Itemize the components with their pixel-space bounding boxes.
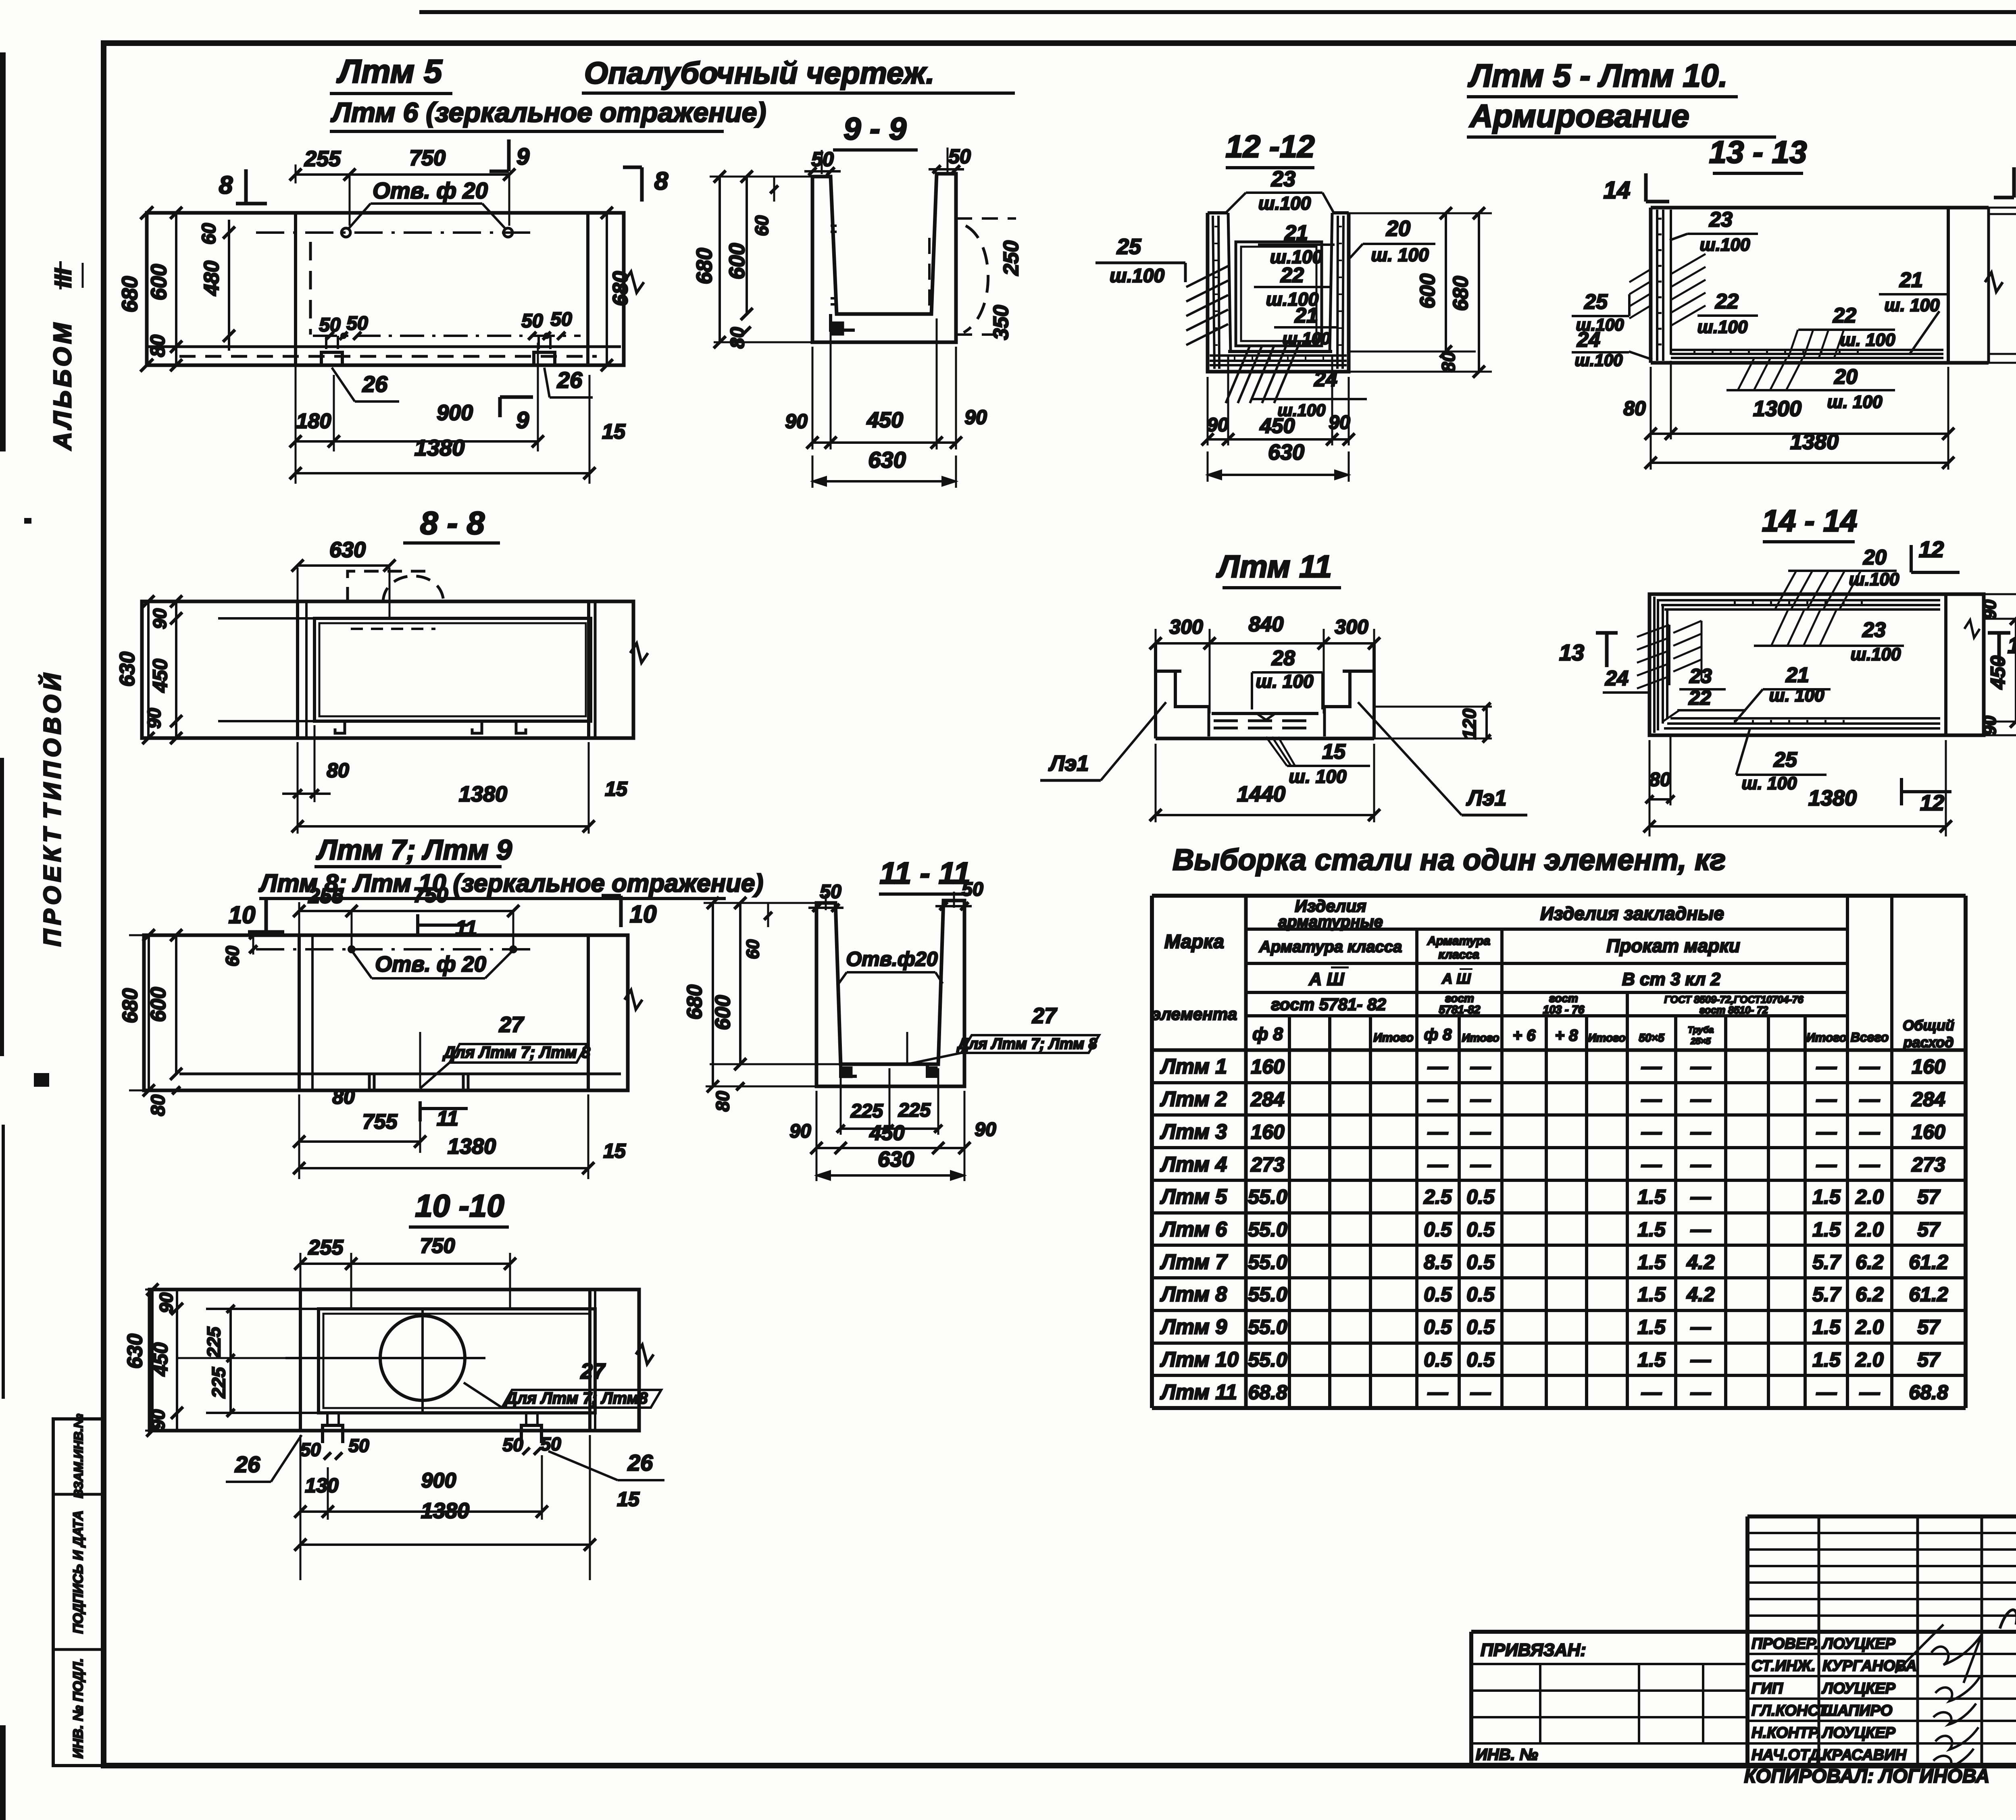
svg-text:8: 8 xyxy=(219,171,233,199)
svg-text:—: — xyxy=(1816,1121,1837,1143)
svg-text:61.2: 61.2 xyxy=(1909,1283,1948,1306)
svg-text:27: 27 xyxy=(580,1359,606,1383)
svg-text:225: 225 xyxy=(850,1100,883,1122)
svg-text:Для Лтм 7; Лтм 8: Для Лтм 7; Лтм 8 xyxy=(956,1036,1097,1052)
view 11-11 header xyxy=(879,856,971,894)
svg-text:Итого: Итого xyxy=(1373,1031,1414,1044)
view 8-8 inner trough xyxy=(218,618,591,721)
svg-text:55.0: 55.0 xyxy=(1248,1186,1287,1208)
heading Ltm7 Ltm9 xyxy=(314,834,512,867)
svg-text:ш.100: ш.100 xyxy=(1574,351,1622,370)
svg-text:80: 80 xyxy=(712,1091,733,1112)
svg-text:750: 750 xyxy=(413,884,448,907)
svg-text:90: 90 xyxy=(785,410,808,433)
view 13-13 hatch left outside xyxy=(1629,269,1651,318)
svg-text:26: 26 xyxy=(235,1452,260,1477)
svg-text:2.0: 2.0 xyxy=(1855,1218,1884,1241)
view 10-10 callout 27 flag xyxy=(464,1359,661,1408)
svg-text:25: 25 xyxy=(1584,290,1608,314)
svg-text:273: 273 xyxy=(1250,1153,1285,1176)
view 14-14 callout 21 xyxy=(1735,664,1831,722)
svg-text:15: 15 xyxy=(617,1488,640,1510)
view 11-11 top dims 50 50 xyxy=(808,879,983,912)
svg-text:9: 9 xyxy=(516,144,529,170)
svg-text:50: 50 xyxy=(820,881,841,903)
view Ltm7 left dims 680 600 80 xyxy=(119,929,182,1116)
svg-text:ш. 100: ш. 100 xyxy=(1371,244,1429,265)
view Ltm7 callout 27 flag xyxy=(420,1013,591,1088)
svg-text:0.5: 0.5 xyxy=(1466,1283,1495,1306)
svg-text:160: 160 xyxy=(1251,1055,1285,1078)
view Ltm7 section mark 10 right xyxy=(602,896,656,928)
svg-text:250: 250 xyxy=(1000,241,1023,276)
svg-text:50: 50 xyxy=(550,309,572,330)
view Ltm5 left dim chain 680 600 480 60 80 xyxy=(118,206,235,372)
svg-text:80: 80 xyxy=(1623,397,1646,420)
svg-text:80: 80 xyxy=(332,1086,355,1108)
svg-text:1.5: 1.5 xyxy=(1637,1186,1666,1208)
svg-text:160: 160 xyxy=(1912,1121,1945,1143)
svg-text:—: — xyxy=(1470,1088,1491,1111)
svg-text:22: 22 xyxy=(1715,290,1739,313)
svg-text:80: 80 xyxy=(148,1094,169,1116)
svg-text:13 - 13: 13 - 13 xyxy=(1709,134,1807,170)
svg-text:4.2: 4.2 xyxy=(1686,1283,1715,1306)
svg-text:60: 60 xyxy=(751,215,772,236)
svg-text:+ 8: + 8 xyxy=(1555,1027,1578,1044)
svg-text:Выборка стали на один элемент,: Выборка стали на один элемент, кг xyxy=(1173,843,1726,876)
svg-text:—: — xyxy=(1816,1055,1837,1078)
svg-text:680: 680 xyxy=(118,276,142,312)
svg-text:25: 25 xyxy=(1116,235,1141,259)
view 13-13 callout 23 xyxy=(1670,208,1758,255)
svg-text:Отв.ф20: Отв.ф20 xyxy=(846,948,937,970)
svg-text:+ 6: + 6 xyxy=(1513,1027,1536,1044)
svg-text:ЛОУЦКЕР: ЛОУЦКЕР xyxy=(1821,1724,1895,1741)
svg-text:Лтм 5: Лтм 5 xyxy=(336,53,443,90)
svg-text:284: 284 xyxy=(1911,1088,1945,1111)
svg-text:50: 50 xyxy=(962,879,983,900)
stamp strip label vzam inv xyxy=(71,1414,85,1498)
svg-text:300: 300 xyxy=(1335,616,1368,638)
svg-text:ш. 100: ш. 100 xyxy=(1885,295,1940,315)
svg-text:680: 680 xyxy=(1449,276,1472,311)
svg-text:630: 630 xyxy=(329,538,366,562)
view 12-12 bottom dim 630 xyxy=(1208,440,1349,482)
view 8-8 outline xyxy=(142,601,633,738)
view 14-14 right dims 90 450 630 90 xyxy=(1980,588,2016,741)
svg-text:Опалубочный чертеж.: Опалубочный чертеж. xyxy=(584,56,934,90)
svg-text:10 -10: 10 -10 xyxy=(415,1188,504,1223)
svg-text:68.8: 68.8 xyxy=(1248,1381,1287,1404)
svg-text:25×5: 25×5 xyxy=(1690,1036,1711,1046)
svg-text:26: 26 xyxy=(362,371,388,397)
svg-text:А Ш: А Ш xyxy=(1441,970,1471,987)
svg-text:Отв. ф 20: Отв. ф 20 xyxy=(373,178,488,203)
svg-text:5.7: 5.7 xyxy=(1812,1283,1841,1306)
scan paper top edge xyxy=(419,10,2016,14)
view 8-8 break mark right xyxy=(630,643,648,663)
svg-text:гост: гост xyxy=(1445,992,1474,1005)
svg-text:Для Лтм 7; Лтм 8: Для Лтм 7; Лтм 8 xyxy=(442,1044,591,1061)
svg-text:630: 630 xyxy=(1268,440,1304,464)
view 10-10 inner trough xyxy=(206,1309,595,1413)
view Ltm7 top dims 255 750 xyxy=(293,884,519,949)
svg-text:55.0: 55.0 xyxy=(1248,1316,1287,1338)
svg-text:180: 180 xyxy=(296,410,331,433)
svg-text:160: 160 xyxy=(1251,1121,1285,1143)
svg-text:Лтм 2: Лтм 2 xyxy=(1160,1088,1227,1111)
view Ltm7 dim 60 xyxy=(222,931,257,967)
svg-text:—: — xyxy=(1690,1316,1711,1338)
svg-text:1380: 1380 xyxy=(1808,786,1857,810)
view 9-9 wall ties xyxy=(831,226,837,304)
svg-text:—: — xyxy=(1641,1088,1662,1111)
svg-text:273: 273 xyxy=(1911,1153,1945,1176)
svg-text:20: 20 xyxy=(1863,546,1887,569)
svg-text:24: 24 xyxy=(1577,328,1600,352)
view Ltm5 label Otv f20 xyxy=(348,178,506,230)
view 12-12 callout 22 xyxy=(1254,264,1331,310)
svg-text:680: 680 xyxy=(119,988,142,1023)
svg-text:24: 24 xyxy=(1605,667,1629,690)
svg-text:Итого: Итого xyxy=(1462,1032,1499,1044)
svg-text:50: 50 xyxy=(348,1435,369,1456)
view 13-13 bottom dims 80 1300 xyxy=(1623,361,1954,470)
view 13-13 right dims 600 680 80 xyxy=(1948,202,2016,369)
svg-text:55.0: 55.0 xyxy=(1248,1218,1287,1241)
svg-text:1.5: 1.5 xyxy=(1812,1348,1841,1371)
svg-text:50: 50 xyxy=(319,314,341,336)
svg-text:—: — xyxy=(1859,1088,1880,1111)
svg-text:80: 80 xyxy=(146,335,169,357)
svg-text:24: 24 xyxy=(1314,368,1337,391)
svg-text:—: — xyxy=(1816,1381,1837,1404)
svg-text:Итого: Итого xyxy=(1588,1032,1625,1044)
svg-text:ш. 100: ш. 100 xyxy=(1742,774,1797,793)
svg-text:255: 255 xyxy=(308,1236,344,1259)
svg-text:450: 450 xyxy=(149,659,171,693)
svg-text:ИНВ. № ПОДЛ.: ИНВ. № ПОДЛ. xyxy=(71,1658,86,1759)
view Ltm11 top dims 300 840 300 xyxy=(1150,613,1380,713)
svg-text:НАЧ.ОТД.: НАЧ.ОТД. xyxy=(1752,1747,1824,1764)
view Ltm5 callout 26 left xyxy=(332,368,399,401)
svg-text:—: — xyxy=(1816,1088,1837,1111)
svg-text:В ст 3 кл 2: В ст 3 кл 2 xyxy=(1622,969,1721,989)
view Ltm5 anchor marks 26 left xyxy=(321,336,342,365)
view 14-14 left hatch xyxy=(1637,625,1669,688)
svg-text:—: — xyxy=(1690,1381,1711,1404)
svg-text:680: 680 xyxy=(683,985,706,1020)
view Ltm5 section mark 9 bottom xyxy=(500,397,533,433)
svg-text:755: 755 xyxy=(362,1110,398,1134)
svg-text:гост 8510- 72: гост 8510- 72 xyxy=(1699,1005,1768,1016)
svg-text:50: 50 xyxy=(521,310,543,332)
svg-text:1.5: 1.5 xyxy=(1637,1251,1666,1273)
svg-text:—: — xyxy=(1859,1055,1880,1078)
svg-text:ТИПОВОЙ: ТИПОВОЙ xyxy=(38,669,66,819)
svg-text:12: 12 xyxy=(1919,537,1944,562)
view 8-8 bottom dims 80 1380 15 xyxy=(282,725,628,834)
svg-text:10: 10 xyxy=(229,901,256,928)
view Ltm7 label Otv f20 xyxy=(353,952,511,978)
svg-text:ВЗАМ.ИНВ.№: ВЗАМ.ИНВ.№ xyxy=(71,1414,85,1498)
svg-text:1380: 1380 xyxy=(1790,430,1839,454)
svg-text:0.5: 0.5 xyxy=(1466,1218,1495,1241)
svg-text:120: 120 xyxy=(1459,708,1480,739)
svg-text:ш. 100: ш. 100 xyxy=(1827,392,1883,412)
view 10-10 top dims 255 750 xyxy=(294,1234,516,1310)
view Ltm11 dim 1440 xyxy=(1150,744,1380,822)
view Ltm5 right dim 680 xyxy=(601,207,632,371)
svg-text:—: — xyxy=(1859,1153,1880,1176)
view 10-10 callout 26 left xyxy=(226,1435,302,1482)
svg-text:0.5: 0.5 xyxy=(1466,1348,1495,1371)
svg-text:14: 14 xyxy=(1604,177,1631,204)
svg-text:А Ш: А Ш xyxy=(1308,969,1344,989)
svg-text:ПОДПИСЬ И ДАТА: ПОДПИСЬ И ДАТА xyxy=(71,1510,86,1634)
svg-text:Армирование: Армирование xyxy=(1469,98,1689,134)
svg-text:2.0: 2.0 xyxy=(1855,1348,1884,1371)
svg-text:—: — xyxy=(1427,1381,1448,1404)
svg-text:ПРОВЕР.: ПРОВЕР. xyxy=(1752,1635,1818,1652)
svg-text:450: 450 xyxy=(866,408,903,432)
svg-text:28: 28 xyxy=(1271,647,1295,670)
view 11-11 channel outline xyxy=(816,901,964,1086)
bottom note kopiroval xyxy=(1744,1766,1990,1787)
svg-text:50: 50 xyxy=(948,145,971,168)
view 9-9 rotated dims 250 350 xyxy=(989,241,1023,340)
svg-text:Общий: Общий xyxy=(1903,1017,1954,1034)
view 12-12 header xyxy=(1225,129,1314,168)
view 12-12 wall rebar lines xyxy=(1210,216,1347,369)
svg-text:ИНВ. №: ИНВ. № xyxy=(1476,1746,1538,1764)
view 13-13 callout 22 with hatch xyxy=(1788,304,1895,358)
svg-text:0.5: 0.5 xyxy=(1424,1316,1452,1338)
svg-text:ш.100: ш.100 xyxy=(1700,235,1750,255)
svg-text:1.5: 1.5 xyxy=(1637,1218,1666,1241)
svg-text:130: 130 xyxy=(305,1474,339,1497)
title block inv no xyxy=(1476,1746,1538,1764)
svg-text:90: 90 xyxy=(964,406,987,428)
svg-text:Лтм 1: Лтм 1 xyxy=(1160,1055,1227,1078)
svg-text:255: 255 xyxy=(308,884,344,908)
svg-text:Лтм 4: Лтм 4 xyxy=(1160,1153,1227,1176)
stamp strip label inv podl xyxy=(71,1658,86,1759)
view Ltm5 dims 50 50 left xyxy=(319,313,368,340)
svg-text:284: 284 xyxy=(1250,1088,1284,1111)
svg-text:гост: гост xyxy=(1549,992,1578,1005)
svg-text:Всего: Всего xyxy=(1851,1030,1889,1044)
svg-text:61.2: 61.2 xyxy=(1909,1251,1948,1273)
svg-text:630: 630 xyxy=(878,1147,914,1171)
view Ltm5 callout 26 right xyxy=(544,367,593,397)
view Ltm5 bottom dims 180 900 xyxy=(289,343,544,484)
svg-text:255: 255 xyxy=(304,147,341,171)
view Ltm11 dim 120 xyxy=(1374,703,1492,743)
view 13-13 left wall rebar xyxy=(1657,210,1671,361)
svg-text:ПРОЕКТ: ПРОЕКТ xyxy=(39,824,66,946)
svg-text:60: 60 xyxy=(198,223,220,245)
stamp strip label podpis xyxy=(71,1510,86,1634)
svg-text:1.5: 1.5 xyxy=(1812,1218,1841,1241)
svg-text:1380: 1380 xyxy=(414,435,465,460)
svg-text:15: 15 xyxy=(605,778,628,800)
svg-text:750: 750 xyxy=(409,146,446,170)
view Ltm7 bottom dims 80 755 11 xyxy=(293,1086,468,1179)
svg-text:ш.100: ш.100 xyxy=(1697,317,1748,337)
view 12-12 callout 23 top xyxy=(1226,167,1334,214)
view Ltm11 leader Le1 left xyxy=(1040,702,1166,780)
table title xyxy=(1173,843,1726,876)
left margin album text xyxy=(49,320,77,451)
view Ltm7 section mark 10 left xyxy=(229,897,284,932)
svg-text:1.5: 1.5 xyxy=(1637,1283,1666,1306)
view 13-13 break mark xyxy=(1985,272,2003,292)
svg-text:1440: 1440 xyxy=(1237,782,1285,806)
view 14-14 hatch group 20 top xyxy=(1775,571,1897,609)
svg-text:5781-82: 5781-82 xyxy=(1439,1003,1481,1016)
table grid xyxy=(1152,896,1966,1408)
svg-text:элемента: элемента xyxy=(1152,1005,1237,1023)
svg-text:90: 90 xyxy=(1207,414,1229,436)
svg-text:15: 15 xyxy=(602,420,626,443)
svg-text:21: 21 xyxy=(1785,664,1809,687)
svg-text:90: 90 xyxy=(144,708,165,729)
svg-text:Лтм 6 (зеркальное отражение): Лтм 6 (зеркальное отражение) xyxy=(330,97,766,128)
view 13-13 callout 21 xyxy=(1879,268,1947,355)
view 10-10 outline xyxy=(150,1290,639,1431)
svg-text:—: — xyxy=(1690,1121,1711,1143)
heading reinforcement xyxy=(1467,98,1776,137)
view 13-13 callout 20 with hatch below xyxy=(1727,359,1895,412)
svg-text:68.8: 68.8 xyxy=(1909,1381,1948,1404)
svg-text:ш.100: ш.100 xyxy=(1282,329,1330,348)
view 13-13 hatch left inside xyxy=(1671,254,1706,326)
left margin project text 2 xyxy=(39,824,66,946)
view 14-14 callout 20 12 xyxy=(1849,537,1960,589)
svg-text:Труба: Труба xyxy=(1688,1025,1714,1035)
svg-text:160: 160 xyxy=(1912,1055,1945,1078)
svg-text:Лтм 10: Лтм 10 xyxy=(1160,1348,1239,1371)
svg-text:1.5: 1.5 xyxy=(1812,1316,1841,1338)
svg-text:0.5: 0.5 xyxy=(1466,1186,1495,1208)
svg-text:III: III xyxy=(50,268,76,288)
view 14-14 top band rebar xyxy=(1658,600,1940,609)
svg-text:480: 480 xyxy=(200,261,223,296)
svg-text:ш.100: ш.100 xyxy=(1258,193,1311,214)
svg-text:50: 50 xyxy=(300,1439,321,1460)
table header texts xyxy=(1259,896,1804,1016)
svg-text:Отв. ф 20: Отв. ф 20 xyxy=(375,952,486,976)
svg-text:90: 90 xyxy=(156,1292,177,1313)
view Ltm5 plan break mark right xyxy=(624,213,644,365)
svg-text:9 - 9: 9 - 9 xyxy=(843,111,907,146)
svg-text:1380: 1380 xyxy=(448,1134,496,1159)
svg-text:Изделия: Изделия xyxy=(1295,896,1366,915)
svg-text:—: — xyxy=(1470,1055,1491,1078)
svg-text:0.5: 0.5 xyxy=(1466,1251,1495,1273)
view 13-13 section mark 14 right xyxy=(1994,167,2016,198)
svg-text:2.0: 2.0 xyxy=(1855,1186,1884,1208)
view Ltm7 break mark right xyxy=(625,935,642,1090)
view 14-14 callout 23 xyxy=(1851,618,1901,664)
svg-text:КРАСАВИН: КРАСАВИН xyxy=(1822,1747,1907,1764)
view 11-11 bottom dims 225 225 xyxy=(837,1068,942,1135)
svg-text:22: 22 xyxy=(1833,304,1856,327)
view 14-14 bottom dims 80 1380 xyxy=(1643,734,1952,836)
svg-text:8 - 8: 8 - 8 xyxy=(420,505,485,541)
svg-text:27: 27 xyxy=(499,1013,525,1037)
svg-text:ЛОУЦКЕР: ЛОУЦКЕР xyxy=(1821,1635,1895,1652)
view 8-8 rebar marks bottom xyxy=(335,721,526,733)
svg-text:—: — xyxy=(1470,1121,1491,1143)
view 11-11 left dims 680 600 60 80 xyxy=(683,897,841,1112)
svg-text:90: 90 xyxy=(1980,599,2000,619)
svg-text:60: 60 xyxy=(222,946,243,967)
svg-text:60: 60 xyxy=(743,939,763,959)
svg-text:600: 600 xyxy=(147,987,170,1022)
svg-text:55.0: 55.0 xyxy=(1248,1283,1287,1306)
view Ltm5 section mark 8 right xyxy=(623,167,669,202)
view Ltm5 section mark 9 top xyxy=(489,139,529,171)
svg-text:ш. 100: ш. 100 xyxy=(1256,671,1314,692)
view Ltm11 water hatch band xyxy=(1212,713,1318,728)
svg-text:23: 23 xyxy=(1862,618,1886,642)
heading Ltm8 Ltm10 mirrored xyxy=(258,869,763,899)
svg-text:90: 90 xyxy=(975,1119,996,1140)
svg-text:4.2: 4.2 xyxy=(1686,1251,1715,1273)
svg-text:50: 50 xyxy=(502,1434,523,1455)
svg-text:Лтм 7: Лтм 7 xyxy=(1160,1250,1228,1274)
svg-text:Прокат марки: Прокат марки xyxy=(1606,935,1740,956)
svg-text:—: — xyxy=(1816,1153,1837,1176)
view 10-10 left dims 630 450 225 225 90 90 xyxy=(123,1283,285,1437)
view 14-14 mark 12 bottom xyxy=(1901,778,1951,815)
view Ltm11 tray outline xyxy=(1156,643,1374,738)
heading Ltm6 mirrored xyxy=(330,97,766,131)
svg-text:Изделия закладные: Изделия закладные xyxy=(1540,903,1724,924)
svg-text:АЛЬБОМ: АЛЬБОМ xyxy=(49,320,77,451)
svg-text:8.5: 8.5 xyxy=(1424,1251,1452,1273)
svg-text:Лтм 11: Лтм 11 xyxy=(1216,549,1332,584)
view 9-9 top dims 50 50 xyxy=(804,145,971,175)
svg-text:ф 8: ф 8 xyxy=(1252,1024,1283,1044)
view 11-11 bottom dim 630 xyxy=(816,1147,964,1180)
svg-text:Лтм 5 - Лтм 10.: Лтм 5 - Лтм 10. xyxy=(1468,58,1728,94)
svg-text:—: — xyxy=(1427,1088,1448,1111)
svg-text:—: — xyxy=(1859,1121,1880,1143)
view 10-10 circle hole xyxy=(285,1309,485,1413)
svg-text:57: 57 xyxy=(1917,1348,1941,1371)
svg-text:14 - 14: 14 - 14 xyxy=(1762,504,1858,538)
table data rows xyxy=(1160,1055,1948,1404)
view 10-10 anchor marks bottom xyxy=(323,1413,541,1443)
svg-text:ГИП: ГИП xyxy=(1752,1680,1783,1697)
svg-text:90: 90 xyxy=(789,1121,811,1142)
svg-text:20: 20 xyxy=(1834,365,1858,389)
view Ltm5 top dims 255 750 xyxy=(289,146,515,226)
view 9-9 bottom dim 630 xyxy=(812,447,956,488)
view 14-14 callout 25 xyxy=(1736,729,1826,793)
svg-text:1.5: 1.5 xyxy=(1637,1348,1666,1371)
view Ltm7 plan outline xyxy=(144,935,628,1090)
svg-text:6.2: 6.2 xyxy=(1856,1283,1884,1306)
view 14-14 hatch group 23 xyxy=(1754,609,1904,646)
heading formwork drawing xyxy=(582,56,1015,93)
view 12-12 right dims 600 680 80 xyxy=(1349,207,1492,378)
svg-text:80: 80 xyxy=(1438,352,1459,372)
